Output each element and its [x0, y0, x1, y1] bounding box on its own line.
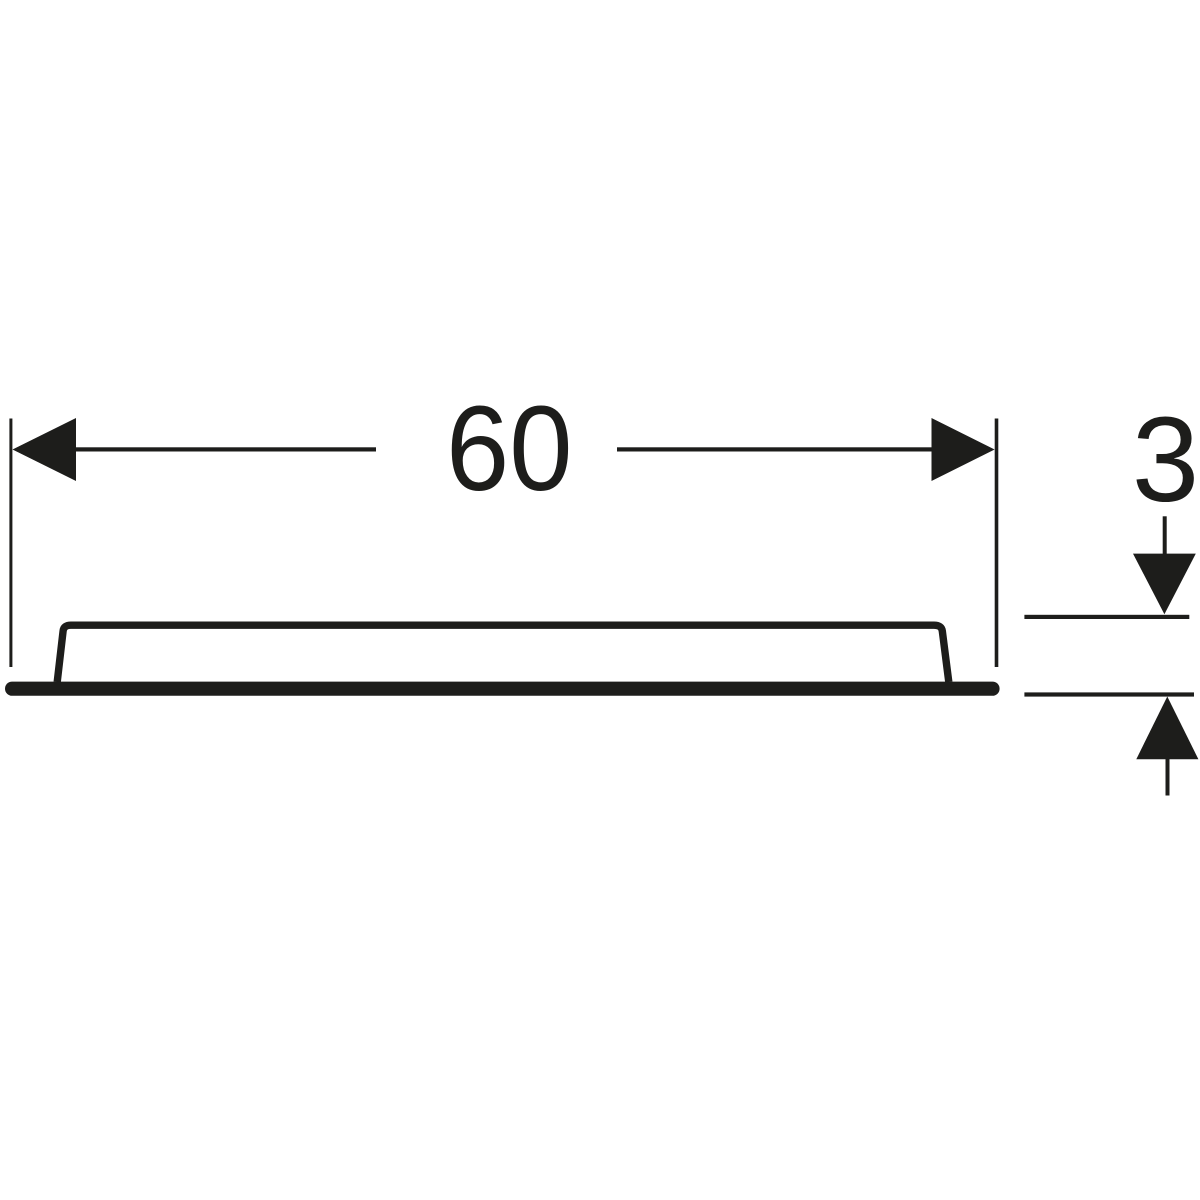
extension line right — [995, 419, 999, 668]
dimension line 60 right segment — [617, 447, 933, 451]
extension line left — [9, 419, 12, 668]
leader arrow down head — [1133, 554, 1196, 615]
svg-text:3: 3 — [1132, 391, 1199, 527]
mirror plate (baseplate) — [5, 682, 1000, 696]
reference line top — [1024, 615, 1189, 619]
leader arrow up tail — [1166, 758, 1170, 796]
arrowhead right — [932, 418, 995, 481]
svg-text:60: 60 — [446, 381, 572, 516]
reference line bottom — [1024, 692, 1194, 696]
leader arrow down tail — [1163, 516, 1167, 556]
arrowhead left — [13, 418, 77, 481]
mirror body profile — [57, 625, 949, 682]
leader arrow up head — [1136, 697, 1198, 760]
dimension line 60 left segment — [74, 447, 376, 451]
